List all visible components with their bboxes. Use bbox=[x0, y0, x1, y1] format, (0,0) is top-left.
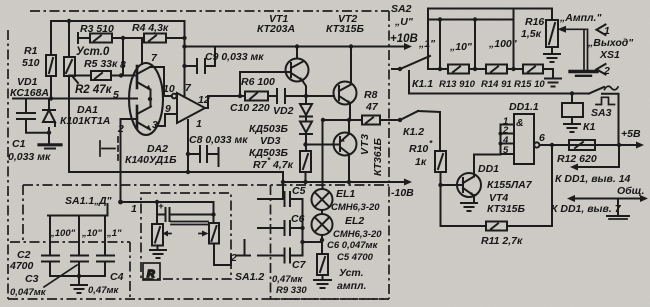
svg-text:VD2: VD2 bbox=[273, 105, 294, 117]
wire DA2 pin1 down bbox=[187, 120, 189, 172]
svg-text:SА1.2: SА1.2 bbox=[235, 271, 264, 283]
wire DA1 collector top to DA2 pin10 bbox=[150, 67, 172, 96]
svg-text:„100": „100" bbox=[49, 228, 76, 239]
relay coil K1 bbox=[562, 94, 583, 124]
svg-text:С9 0,033 мк: С9 0,033 мк bbox=[205, 51, 264, 63]
capacitor Ct (pin2 trimmer cap) bbox=[100, 137, 118, 160]
svg-text:SА3: SА3 bbox=[591, 107, 612, 119]
polarized capacitor Cp bbox=[157, 202, 214, 224]
svg-text:R13 910: R13 910 bbox=[439, 79, 476, 90]
arrowhead +10V bbox=[404, 43, 412, 50]
svg-text:С5: С5 bbox=[292, 185, 306, 197]
svg-text:С6 0,047мк: С6 0,047мк bbox=[327, 240, 379, 251]
node E bbox=[148, 97, 152, 101]
transistor VT3 (PNP) bbox=[334, 120, 357, 182]
ground bbox=[39, 133, 61, 149]
transistor VT4 bbox=[441, 155, 501, 203]
wire DA2 pin7 supply bbox=[184, 21, 186, 97]
svg-text:R6 100: R6 100 bbox=[241, 76, 275, 88]
svg-text:0,47мк: 0,47мк bbox=[272, 274, 304, 285]
svg-text:С6: С6 bbox=[291, 213, 305, 225]
node L bbox=[438, 183, 442, 187]
tap 10 bbox=[78, 216, 80, 256]
wire caps common bbox=[50, 276, 105, 284]
tap wire 1 bbox=[439, 20, 441, 70]
right section top: SA2 labels bbox=[390, 3, 436, 50]
svg-text:2: 2 bbox=[230, 252, 237, 264]
svg-text:Общ.: Общ. bbox=[617, 185, 644, 197]
wiper arrow P1 bbox=[163, 231, 172, 237]
svg-text:К101КТ1А: К101КТ1А bbox=[60, 115, 110, 127]
svg-text:-10В: -10В bbox=[391, 187, 414, 199]
svg-text:R15 10: R15 10 bbox=[514, 79, 545, 90]
node D bbox=[119, 73, 123, 77]
svg-text:К1.1: К1.1 bbox=[412, 78, 433, 90]
svg-text:8: 8 bbox=[120, 59, 126, 71]
svg-text:VD3: VD3 bbox=[260, 135, 281, 147]
capacitor C10 bbox=[268, 89, 334, 103]
wiper arrow R16 bbox=[558, 26, 586, 33]
common rail arrows bbox=[567, 195, 648, 202]
wire pin2 down to SA1.1 bbox=[121, 119, 138, 202]
svg-text:СМН6,3-20: СМН6,3-20 bbox=[331, 202, 380, 213]
potentiometer P1 bbox=[152, 224, 163, 249]
svg-text:С5 4700: С5 4700 bbox=[337, 252, 374, 263]
capacitor C2 bbox=[42, 256, 59, 277]
svg-text:R5 33к: R5 33к bbox=[84, 58, 118, 70]
svg-text:„10": „10" bbox=[449, 41, 473, 53]
pulse symbol bbox=[596, 97, 615, 104]
svg-text:Уст.0: Уст.0 bbox=[76, 46, 110, 58]
switch SA1.2 bbox=[237, 240, 250, 256]
svg-text:С8 0,033 мк: С8 0,033 мк bbox=[189, 134, 248, 146]
svg-text:„U": „U" bbox=[394, 16, 414, 28]
wire pin8 bbox=[121, 38, 138, 76]
resistor R11 bbox=[441, 145, 553, 231]
svg-text:+10В: +10В bbox=[390, 33, 418, 45]
switch K1.1 bbox=[392, 56, 430, 69]
svg-text:„Ампл.": „Ампл." bbox=[559, 12, 602, 24]
svg-text:+: + bbox=[158, 201, 164, 212]
svg-text:R3 510: R3 510 bbox=[80, 23, 114, 35]
lamp EL1 bbox=[312, 189, 333, 210]
mechanical link bbox=[171, 222, 208, 225]
svg-text:КТ315Б: КТ315Б bbox=[487, 203, 526, 215]
enclosure border block2 (SA1.1 range switch) bbox=[23, 185, 389, 242]
svg-text:1: 1 bbox=[604, 25, 610, 37]
svg-text:EL2: EL2 bbox=[345, 215, 364, 227]
svg-text:EL1: EL1 bbox=[336, 188, 355, 200]
node I bbox=[303, 180, 307, 184]
diode VD3 bbox=[300, 122, 312, 152]
wire -10V rail bbox=[283, 172, 412, 199]
svg-text:К140УД1Б: К140УД1Б bbox=[125, 154, 177, 166]
node B bbox=[49, 96, 53, 100]
capacitor C1 bbox=[17, 99, 49, 133]
svg-text:„Выход": „Выход" bbox=[587, 37, 634, 49]
lamp EL2 bbox=[312, 210, 333, 254]
wire common rail y172 bbox=[69, 171, 283, 173]
transistor VT2 bbox=[334, 47, 357, 121]
capacitor C9 bbox=[185, 47, 216, 74]
tap wire 100 bbox=[513, 9, 515, 70]
op-amp DA2 bbox=[156, 93, 205, 126]
capacitor C5 bbox=[258, 192, 303, 256]
capacitor C3 bbox=[71, 256, 88, 277]
svg-text:510: 510 bbox=[22, 57, 40, 69]
svg-text:+5В: +5В bbox=[621, 128, 641, 140]
node C (R3/R4 junction) bbox=[121, 36, 125, 40]
svg-text:1к: 1к bbox=[415, 156, 427, 168]
wire caps bus to lamp column bbox=[303, 241, 323, 243]
svg-text:ампл.: ампл. bbox=[337, 280, 367, 292]
wiper arrow P2 bbox=[199, 231, 209, 237]
wire K1 feed bbox=[409, 71, 589, 94]
resistor R6 bbox=[245, 92, 268, 101]
svg-text:XS1: XS1 bbox=[599, 49, 620, 61]
wire VT3 base bbox=[306, 144, 341, 146]
node H (VT1 emitter / VT2 base junction) bbox=[304, 94, 308, 98]
svg-text:0,033 мк: 0,033 мк bbox=[8, 151, 51, 163]
svg-text:R12 620: R12 620 bbox=[557, 153, 597, 165]
chassis symbol bbox=[607, 199, 629, 220]
svg-text:R10: R10 bbox=[409, 143, 428, 155]
svg-text:0,047мк: 0,047мк bbox=[10, 287, 47, 298]
wire DA2 output bbox=[205, 96, 245, 108]
svg-text:R: R bbox=[147, 268, 155, 280]
svg-text:R11 2,7к: R11 2,7к bbox=[481, 235, 523, 247]
ground bbox=[150, 250, 166, 258]
svg-text:VT3: VT3 bbox=[359, 134, 371, 155]
wire rail y98 bbox=[13, 98, 137, 100]
wire pin7 to R3R4 bbox=[141, 38, 143, 64]
svg-text:„1": „1" bbox=[106, 228, 122, 239]
svg-text:R4 4,3к: R4 4,3к bbox=[132, 22, 169, 34]
switch SA1.1 bbox=[48, 204, 108, 216]
capacitor C6 bbox=[258, 221, 303, 235]
svg-text:С3: С3 bbox=[25, 273, 39, 285]
trimmer R5 bbox=[69, 71, 121, 80]
svg-text:0,47мк: 0,47мк bbox=[88, 285, 120, 296]
connector XS1 pin2 bbox=[597, 64, 606, 75]
svg-text:9: 9 bbox=[165, 103, 171, 115]
svg-text:2: 2 bbox=[603, 65, 610, 77]
svg-text:К1.2: К1.2 bbox=[403, 126, 424, 138]
svg-text:5: 5 bbox=[113, 89, 119, 101]
svg-text:СМН6,3-20: СМН6,3-20 bbox=[333, 229, 382, 240]
svg-text:К155ЛА7: К155ЛА7 bbox=[487, 179, 533, 191]
svg-text:Уст.: Уст. bbox=[339, 267, 364, 279]
capacitor C8 bbox=[188, 146, 219, 166]
ground bbox=[545, 79, 561, 87]
resistor R3 bbox=[78, 33, 144, 43]
svg-text:4700: 4700 bbox=[9, 260, 34, 272]
connector XS1 pin1 bbox=[597, 25, 606, 36]
resistor R12 bbox=[569, 140, 595, 150]
svg-text:КТ361Б: КТ361Б bbox=[372, 137, 384, 176]
wire bus drop bbox=[427, 9, 429, 70]
wire to DD1 pin14 bbox=[570, 145, 619, 171]
svg-text:КТ315Б: КТ315Б bbox=[326, 23, 365, 35]
svg-text:R9 330: R9 330 bbox=[276, 285, 307, 296]
enclosure border caps box C2-C4 bbox=[10, 242, 130, 299]
ground bbox=[570, 72, 597, 76]
enclosure border block3 (R sensor unit) bbox=[141, 193, 231, 279]
svg-text:SА2: SА2 bbox=[391, 3, 412, 15]
svg-text:R1: R1 bbox=[24, 45, 38, 57]
node A bbox=[67, 19, 71, 23]
tap 100 bbox=[49, 216, 51, 256]
enclosure border block4 (lamp/caps unit) bbox=[271, 185, 390, 299]
ground bbox=[461, 203, 477, 211]
wire top bus1 bbox=[428, 8, 552, 10]
svg-text:КТ203А: КТ203А bbox=[257, 23, 295, 35]
resistor R10 bbox=[435, 112, 446, 226]
capacitor C4 bbox=[97, 256, 114, 277]
resistor R4 bbox=[144, 34, 185, 43]
svg-text:47: 47 bbox=[365, 101, 379, 113]
switch SA3 bbox=[589, 87, 619, 145]
resistor R7 bbox=[300, 151, 311, 182]
svg-text:КС168А: КС168А bbox=[10, 87, 49, 99]
svg-text:К1: К1 bbox=[583, 121, 595, 133]
ground bbox=[544, 54, 560, 62]
shielded cable bbox=[584, 29, 588, 70]
ac tilde bbox=[605, 86, 619, 90]
svg-text:1,5к: 1,5к bbox=[521, 28, 542, 40]
svg-text:С4: С4 bbox=[110, 271, 124, 283]
svg-text:С1: С1 bbox=[12, 138, 26, 150]
resistor R14 bbox=[469, 65, 507, 74]
switch K1.2 bbox=[389, 111, 440, 120]
svg-text:С7: С7 bbox=[292, 259, 307, 271]
svg-text:DD1.1: DD1.1 bbox=[509, 101, 539, 113]
resistor R13 bbox=[428, 65, 469, 74]
resistor R8 bbox=[323, 116, 399, 125]
label R box bbox=[143, 263, 160, 280]
wire top bus2 bbox=[428, 19, 514, 21]
diode VD2 bbox=[300, 96, 312, 121]
tap wire 10 bbox=[474, 20, 476, 70]
svg-text:R8: R8 bbox=[364, 89, 378, 101]
wire VT1 base bbox=[240, 72, 291, 96]
svg-text:КД503Б: КД503Б bbox=[249, 123, 289, 135]
dual transistor DA1 bbox=[129, 63, 163, 135]
svg-text:&: & bbox=[516, 117, 524, 129]
svg-text:1: 1 bbox=[196, 118, 202, 130]
svg-text:„10": „10" bbox=[81, 228, 102, 239]
capacitor C7 bbox=[258, 249, 303, 263]
wire SA1.1 to block3 bbox=[121, 201, 214, 203]
svg-text:1: 1 bbox=[131, 203, 137, 215]
ground bbox=[314, 280, 331, 288]
resistor R15 bbox=[507, 65, 553, 79]
svg-text:4,7к: 4,7к bbox=[272, 159, 294, 171]
ground bbox=[564, 124, 580, 132]
svg-text:SА1.1„Д": SА1.1„Д" bbox=[65, 195, 113, 207]
transistor VT1 bbox=[286, 47, 309, 104]
svg-text:R2 47к: R2 47к bbox=[75, 84, 113, 96]
resistor R1 bbox=[46, 21, 56, 99]
svg-text:„100": „100" bbox=[488, 38, 518, 50]
potentiometer R16 bbox=[546, 9, 558, 54]
NAND gate DD1.1 bbox=[501, 114, 553, 164]
svg-text:С10 220: С10 220 bbox=[230, 102, 270, 114]
svg-text:6: 6 bbox=[539, 132, 545, 144]
ground bbox=[71, 285, 87, 293]
wire output to +5V bbox=[552, 142, 644, 149]
wire lamp column bbox=[322, 120, 324, 189]
svg-text:R14 91: R14 91 bbox=[481, 79, 512, 90]
svg-text:R16: R16 bbox=[525, 16, 544, 28]
trimmer R2 bbox=[64, 21, 78, 172]
enclosure border block1 (dash-dot frame) bbox=[8, 11, 390, 299]
svg-text:10: 10 bbox=[163, 83, 175, 95]
wire +10V rail bbox=[185, 46, 405, 48]
svg-text:DD1: DD1 bbox=[478, 163, 499, 175]
svg-text:К DD1, выв. 14: К DD1, выв. 14 bbox=[555, 173, 631, 185]
node J bbox=[320, 238, 324, 242]
potentiometer P2 bbox=[209, 202, 231, 265]
zener diode VD1 bbox=[43, 99, 55, 133]
node G bbox=[182, 44, 186, 48]
node K bbox=[155, 200, 159, 204]
tap 1 bbox=[104, 216, 106, 256]
wire top bus left bbox=[51, 20, 185, 22]
svg-text:R7: R7 bbox=[253, 159, 268, 171]
node F bbox=[186, 170, 190, 174]
resistor R9 bbox=[317, 254, 328, 279]
svg-text:5: 5 bbox=[503, 145, 509, 156]
svg-text:К DD1, выв. 7: К DD1, выв. 7 bbox=[551, 203, 622, 215]
